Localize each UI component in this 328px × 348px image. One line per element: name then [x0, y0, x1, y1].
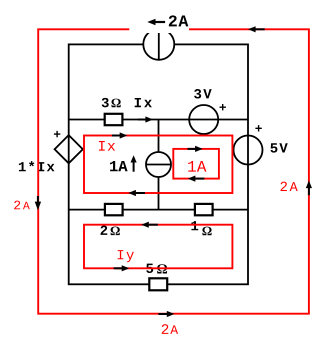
label 5ohm — [146, 264, 167, 274]
label 2A bottom red — [162, 324, 178, 334]
label 1*Ix — [19, 161, 55, 171]
wire row3 horizontal — [69, 209, 248, 211]
label Iy red — [118, 250, 134, 262]
arrow up 1A direction — [131, 155, 137, 172]
label 1A red — [188, 161, 206, 172]
mesh loop Ix red — [84, 136, 232, 194]
arrow left on Iy loop top — [141, 222, 158, 228]
arrow right on Ix loop top — [112, 132, 127, 138]
resistor R 5ohm — [149, 278, 167, 290]
arrow right on 1A loop top — [188, 146, 203, 152]
label Ix black — [135, 98, 152, 107]
voltage source 5V — [234, 136, 263, 165]
label 1A black — [110, 161, 128, 171]
arrow down on outer loop left — [35, 196, 41, 210]
label 2ohm — [101, 226, 120, 236]
label 2A with arrow top (white background) — [129, 10, 189, 33]
plus sign 5V — [255, 125, 261, 131]
label Ix red — [99, 141, 115, 151]
resistor R 1ohm — [195, 204, 213, 215]
mesh loop Iy red — [84, 225, 232, 269]
label 2A left red — [14, 201, 30, 210]
plus sign diamond — [54, 131, 60, 137]
plus sign 3V — [220, 104, 226, 110]
resistor R 2ohm — [105, 204, 123, 215]
loop 1A red inner — [173, 149, 219, 179]
arrow left on Ix loop bottom — [128, 190, 145, 196]
label 3V — [194, 89, 212, 99]
current source 2A top — [143, 29, 174, 60]
arrow right on Iy loop bottom — [114, 265, 130, 271]
label 2A right red — [280, 182, 297, 191]
outer loop 2A red — [38, 29, 309, 313]
arrow left on 1A loop bottom — [188, 176, 205, 182]
voltage source 3V — [189, 105, 218, 134]
arrow right on outer loop bottom — [158, 311, 174, 317]
arrow up on outer loop right — [306, 181, 312, 196]
label 5V — [270, 143, 287, 152]
dependent source diamond 1*Ix — [55, 135, 83, 163]
wire outer rectangle — [69, 44, 248, 284]
label 3ohm — [102, 98, 121, 108]
arrow left on outer loop top — [248, 26, 265, 32]
label 1ohm — [191, 221, 211, 235]
resistor R 3ohm — [105, 114, 123, 125]
current source 1A middle — [146, 152, 171, 177]
arrow Ix on row2 wire — [138, 116, 153, 122]
wire middle vertical — [158, 120, 160, 210]
wire row2 horizontal — [69, 119, 248, 121]
